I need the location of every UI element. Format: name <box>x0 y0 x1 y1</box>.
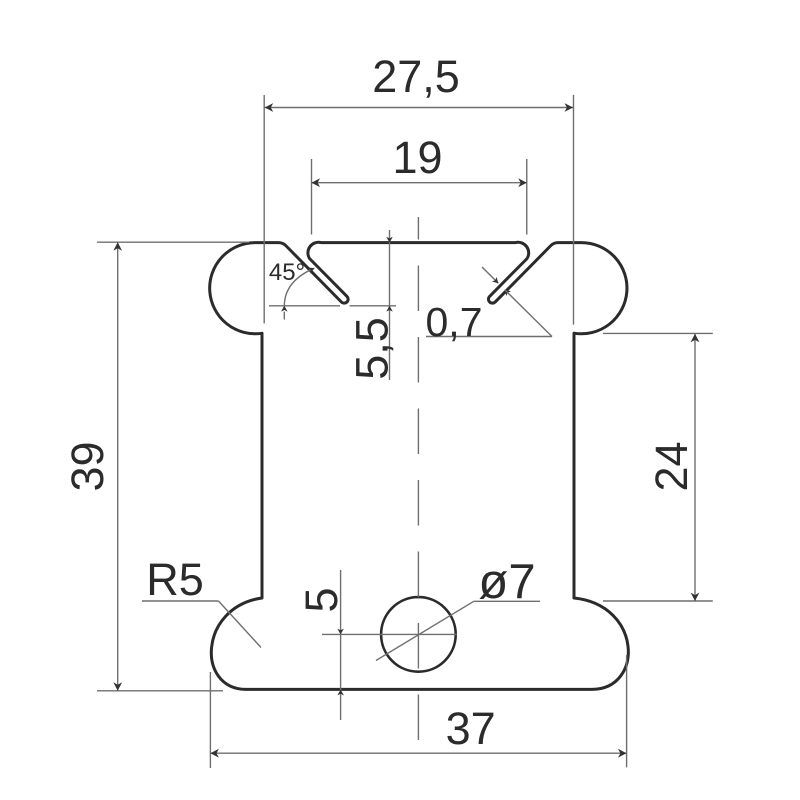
radius R5 label with leader <box>142 600 219 602</box>
svg-text:37: 37 <box>446 703 496 754</box>
svg-text:27,5: 27,5 <box>372 51 460 102</box>
svg-text:R5: R5 <box>146 554 204 605</box>
part outline <box>210 242 629 689</box>
angle dimension 45 <box>284 268 314 306</box>
diameter 7 label with leader <box>376 601 474 660</box>
dimension 39 <box>117 242 119 691</box>
centerline (dashed vertical) <box>417 217 419 766</box>
svg-text:ø7: ø7 <box>478 555 535 609</box>
hole crosshair horizontal <box>322 633 457 635</box>
svg-text:24: 24 <box>646 441 697 491</box>
svg-text:39: 39 <box>62 441 113 491</box>
dimension 37 <box>210 752 626 754</box>
dimension 0,7 with leader <box>482 267 498 283</box>
svg-text:5: 5 <box>296 587 347 612</box>
dimension 27,5 <box>265 107 573 109</box>
dimension 24 <box>694 334 696 601</box>
hole circle <box>381 597 456 672</box>
svg-text:0,7: 0,7 <box>426 299 483 345</box>
dimension 5 <box>340 570 342 720</box>
dimension 5,5 <box>389 230 391 380</box>
svg-text:19: 19 <box>392 132 442 183</box>
dimension 19 <box>312 182 527 184</box>
svg-text:45°: 45° <box>269 259 305 286</box>
svg-text:5,5: 5,5 <box>347 317 398 380</box>
